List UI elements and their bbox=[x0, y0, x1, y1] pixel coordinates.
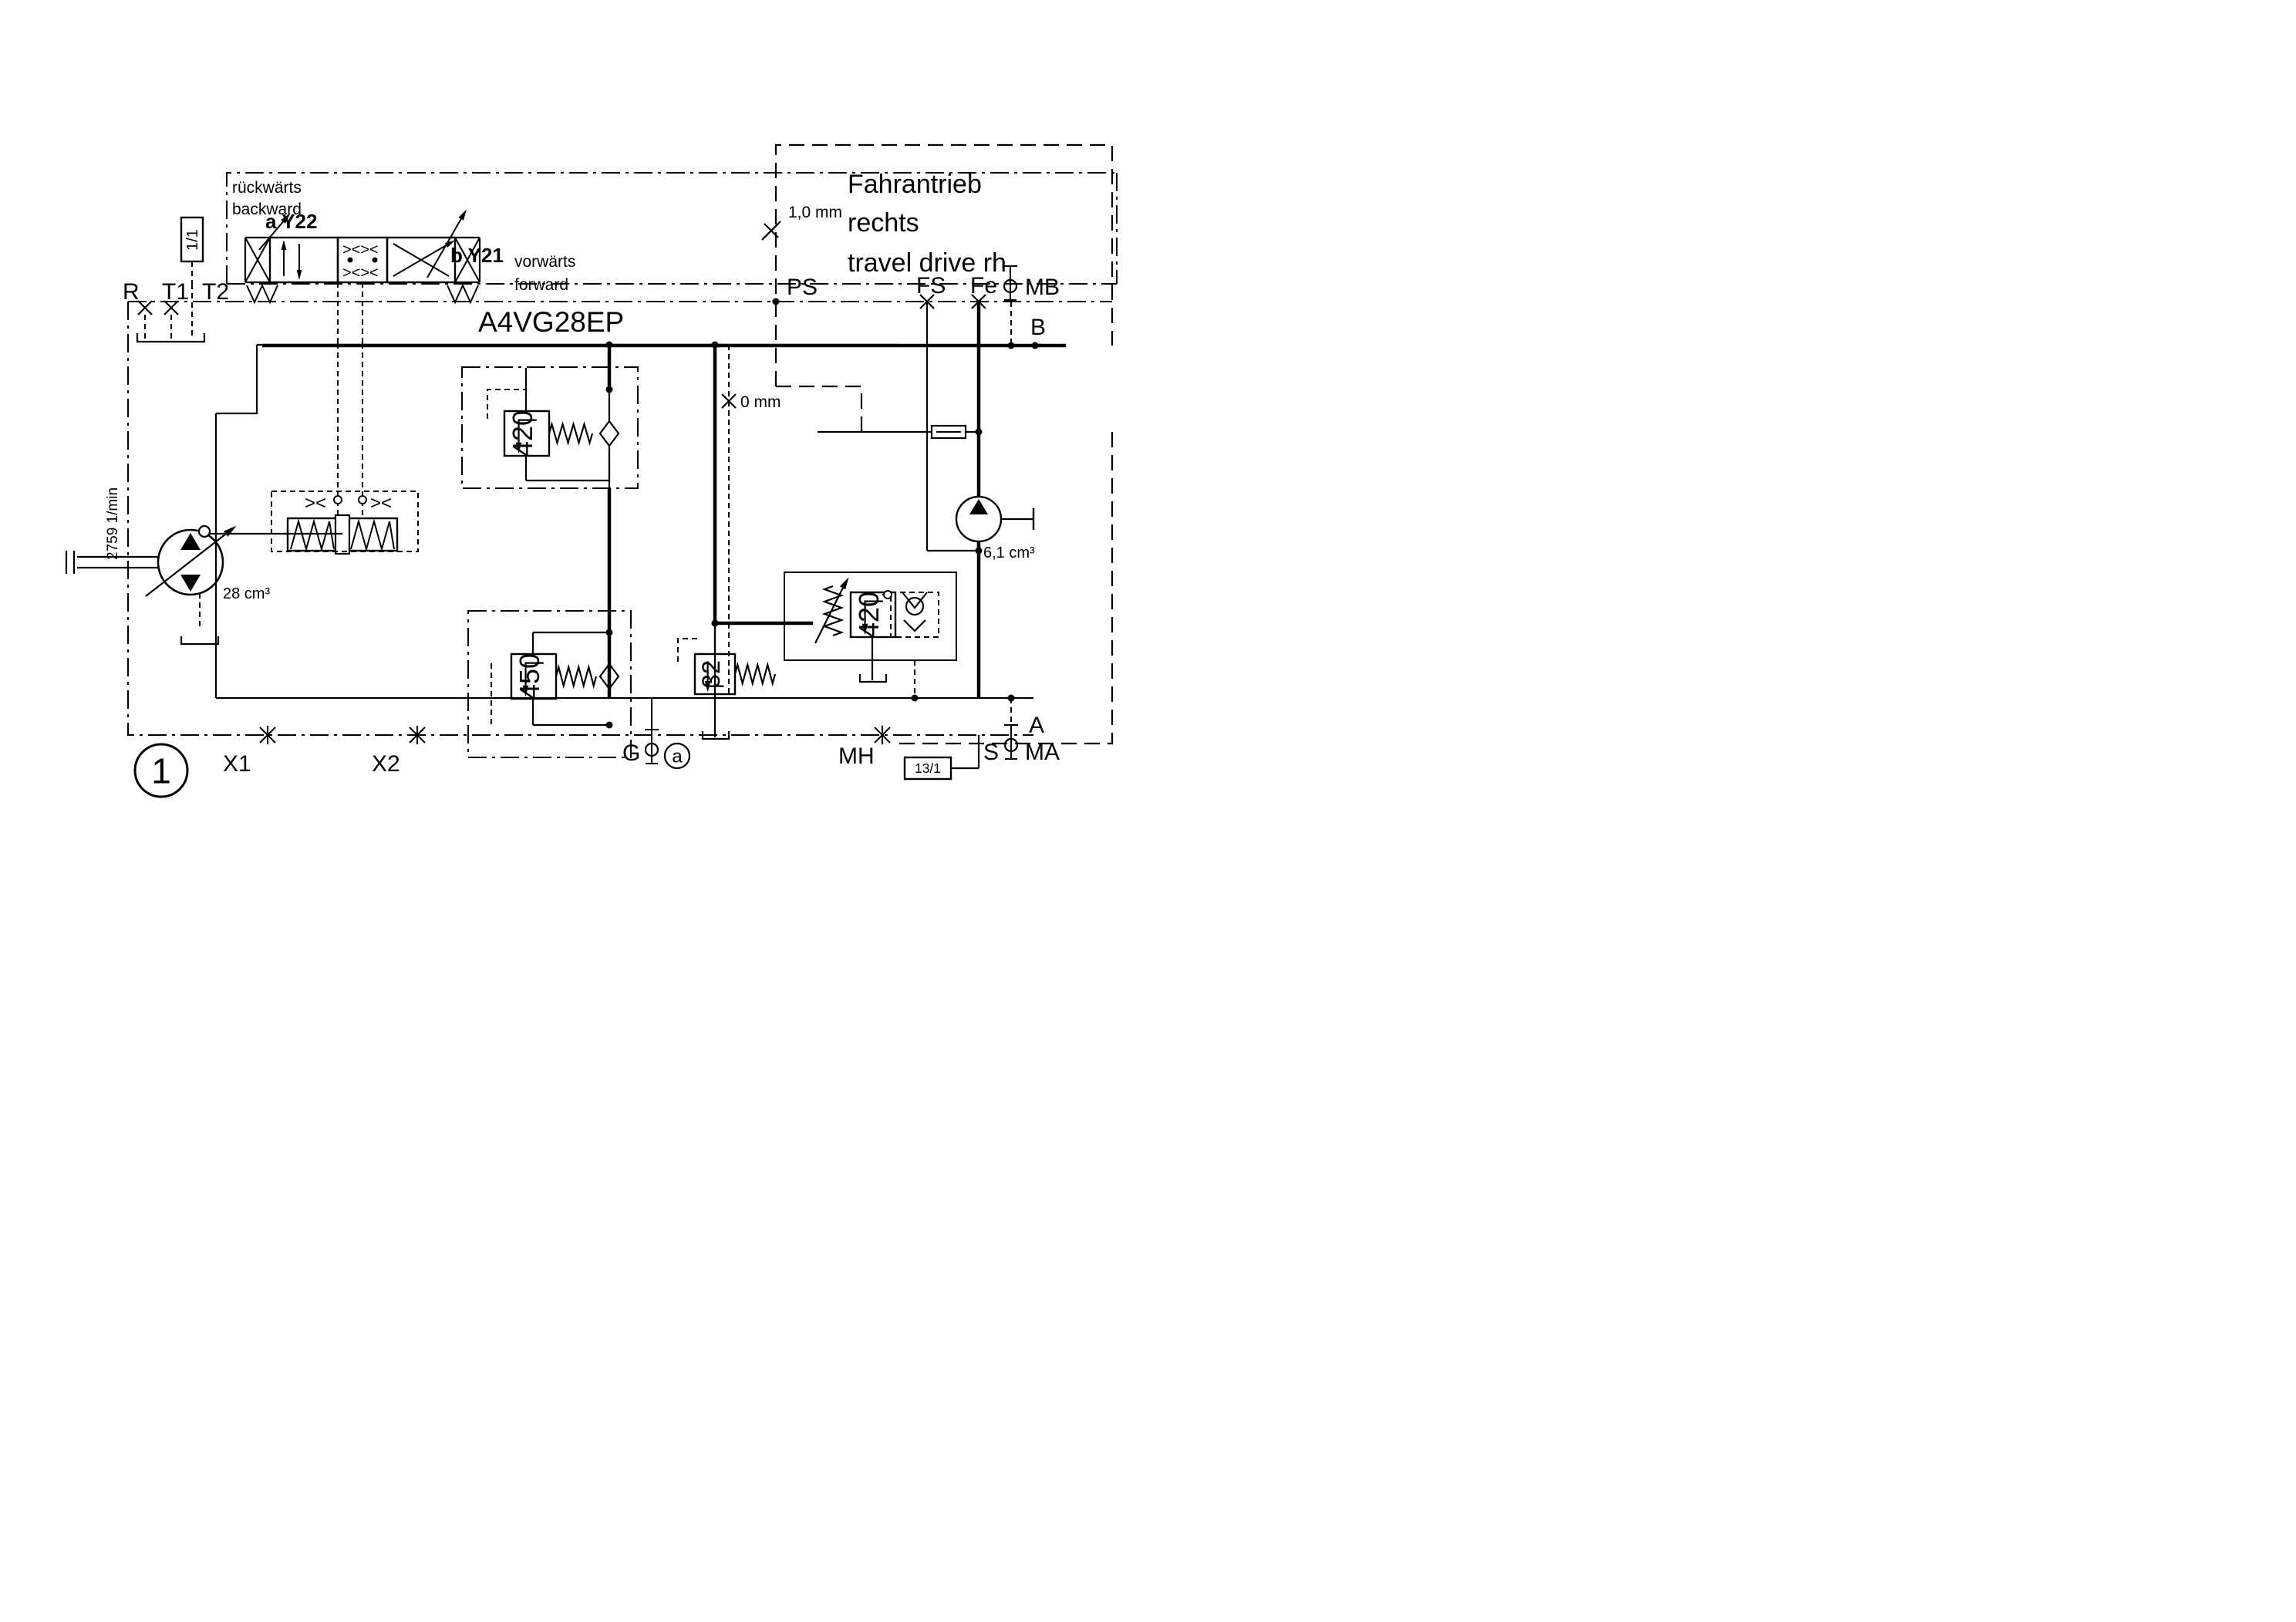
svg-text:6,1 cm³: 6,1 cm³ bbox=[983, 545, 1035, 561]
wire left vert bbox=[216, 345, 257, 698]
svg-text:420: 420 bbox=[507, 410, 538, 457]
wire charge down bbox=[714, 623, 716, 698]
label B rh bbox=[1030, 315, 1046, 340]
adj relief check rh bbox=[891, 592, 939, 637]
svg-text:X2: X2 bbox=[372, 751, 400, 777]
servo feedback link bbox=[199, 526, 342, 537]
svg-text:2759 1/min: 2759 1/min bbox=[105, 487, 121, 560]
svg-text:><: >< bbox=[305, 493, 326, 514]
label vorwaerts/forward bbox=[514, 253, 575, 294]
svg-text:13/1: 13/1 bbox=[915, 760, 941, 776]
adj relief wires rh bbox=[882, 591, 919, 702]
relief 450 check bbox=[600, 664, 619, 689]
svg-text:1,0 mm: 1,0 mm bbox=[788, 204, 842, 221]
wire 0mm vert rh bbox=[728, 345, 730, 698]
port A label upper bbox=[1029, 713, 1044, 738]
wire FS down rh bbox=[926, 302, 928, 524]
port label R bbox=[123, 279, 140, 305]
svg-text:a: a bbox=[672, 746, 683, 767]
port X1 bbox=[223, 726, 275, 777]
drain dashes R T1 T2 bbox=[145, 284, 192, 339]
pump triangles bbox=[180, 533, 201, 592]
travel drive dashed box rh bbox=[776, 145, 1112, 744]
relief 32 wires bbox=[703, 620, 729, 740]
refbox 13/1 bbox=[905, 735, 979, 779]
wire B bus rh bbox=[262, 342, 1066, 349]
svg-text:B: B bbox=[1030, 315, 1046, 340]
circle a upper bbox=[665, 744, 689, 768]
boost pump rh bbox=[956, 497, 1033, 541]
circled 1 upper bbox=[135, 744, 187, 797]
label 28 cm3 bbox=[223, 585, 270, 602]
svg-text:MH: MH bbox=[838, 744, 875, 769]
wire Fe down rh bbox=[977, 302, 981, 497]
svg-text:X1: X1 bbox=[223, 751, 251, 777]
relief 420 enclosure bbox=[462, 367, 638, 488]
port A dash bbox=[1008, 695, 1015, 726]
wire charge vertical bbox=[712, 342, 814, 627]
label 6,1 cm3 rh bbox=[983, 545, 1035, 561]
relief 32 bbox=[695, 654, 775, 694]
label rueckwaerts/backward bbox=[232, 179, 302, 218]
svg-text:32: 32 bbox=[697, 660, 725, 688]
adj relief 420 rh bbox=[784, 572, 956, 660]
upper pump solenoid enclosure border bbox=[227, 173, 1117, 284]
port MA upper bbox=[1004, 725, 1060, 765]
relief 32 pilot bbox=[672, 631, 749, 702]
label a Y22 bbox=[265, 210, 317, 233]
pump case drain bbox=[181, 593, 218, 644]
wire bottom bus upper bbox=[216, 697, 1033, 699]
adj relief drain rh bbox=[860, 637, 886, 682]
relief 450 enclosure bbox=[468, 611, 631, 757]
servo enclosure bbox=[271, 491, 418, 551]
port label T2 bbox=[202, 279, 229, 305]
relief 420 upper top bbox=[504, 410, 592, 457]
svg-text:rückwärts: rückwärts bbox=[232, 179, 302, 197]
solenoid enclosure right edge bbox=[1116, 173, 1118, 284]
port Fe rh bbox=[970, 273, 997, 309]
svg-text:1: 1 bbox=[151, 751, 171, 791]
wire left border to pump bbox=[128, 344, 257, 346]
svg-text:b Y21: b Y21 bbox=[450, 244, 504, 267]
pilot wires valve to servo bbox=[338, 282, 362, 518]
wire control bus bbox=[257, 344, 897, 346]
pump main circle upper bbox=[158, 530, 223, 595]
relief 420 check bbox=[600, 421, 619, 446]
port FS rh bbox=[916, 273, 946, 309]
solenoid enclosure bottom bbox=[227, 283, 1117, 285]
svg-text:A4VG28EP: A4VG28EP bbox=[478, 306, 624, 338]
port MH bbox=[838, 726, 890, 769]
pump variable arrow bbox=[146, 523, 238, 596]
drain bracket bbox=[137, 333, 204, 342]
svg-text:><><: ><>< bbox=[342, 241, 379, 258]
port label T1 bbox=[162, 279, 189, 305]
svg-text:forward: forward bbox=[514, 276, 568, 294]
svg-text:Fahrantrieb: Fahrantrieb bbox=[848, 170, 982, 199]
relief 420 wires bbox=[526, 368, 613, 481]
svg-text:450: 450 bbox=[514, 653, 545, 700]
label 1,0 mm rh bbox=[762, 204, 842, 240]
port T1 xmark bbox=[164, 301, 178, 315]
boost pump outlet rh bbox=[927, 524, 983, 698]
port PS rh bbox=[773, 275, 818, 305]
wire A-line vertical bbox=[606, 342, 613, 390]
svg-text:><><: ><>< bbox=[342, 265, 379, 282]
relief 450 bbox=[511, 653, 596, 700]
servo cylinder bbox=[288, 515, 397, 554]
PS dashdot line rh bbox=[128, 301, 1112, 302]
svg-text:420: 420 bbox=[853, 592, 885, 638]
svg-text:0 mm: 0 mm bbox=[740, 393, 781, 411]
servo pilot chokes bbox=[305, 493, 392, 514]
svg-text:A: A bbox=[1029, 713, 1044, 738]
svg-text:rechts: rechts bbox=[848, 208, 919, 238]
label 2759 1/min bbox=[105, 487, 121, 560]
label Fahrantrieb rechts bbox=[848, 170, 1006, 278]
label b Y21 bbox=[450, 244, 504, 267]
svg-text:vorwärts: vorwärts bbox=[514, 253, 575, 271]
relief 420 pilot dash bbox=[487, 389, 526, 419]
svg-text:backward: backward bbox=[232, 201, 302, 218]
svg-text:1/1: 1/1 bbox=[184, 229, 201, 251]
port S upper bbox=[983, 740, 999, 765]
svg-text:G: G bbox=[622, 740, 640, 766]
svg-text:><: >< bbox=[370, 493, 392, 514]
svg-text:PS: PS bbox=[787, 275, 818, 300]
wire A-line vertical2 bbox=[608, 458, 612, 698]
port X2 bbox=[372, 726, 425, 777]
svg-text:28 cm³: 28 cm³ bbox=[223, 585, 270, 602]
wire 1/1 to T2 bbox=[191, 261, 193, 284]
label 0 mm rh bbox=[722, 393, 781, 411]
relief 450 pilot bbox=[491, 663, 492, 725]
drive shaft bbox=[66, 551, 158, 574]
label A4VG28EP upper bbox=[478, 306, 624, 338]
upper pump block border bbox=[128, 302, 1033, 735]
port R xmark bbox=[138, 301, 152, 315]
svg-text:MB: MB bbox=[1025, 275, 1060, 300]
port MB rh bbox=[1003, 266, 1060, 300]
svg-text:Fe: Fe bbox=[970, 273, 997, 298]
relief 450 wires bbox=[533, 629, 613, 729]
wire MB dash rh bbox=[1010, 302, 1012, 346]
fuse sym rh bbox=[818, 426, 983, 438]
reference box 1/1 bbox=[181, 218, 203, 261]
port G upper bbox=[622, 698, 659, 766]
solenoid valve Y22/Y21 bbox=[245, 207, 480, 302]
